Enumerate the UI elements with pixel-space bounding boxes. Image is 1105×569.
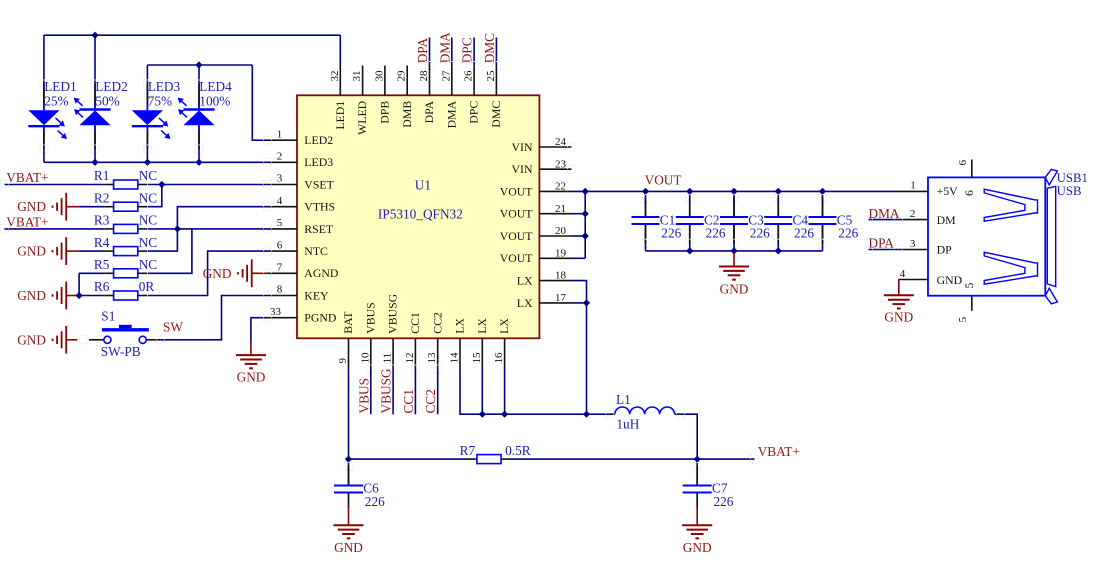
ground GND (S1 row) xyxy=(17,326,77,354)
svg-text:DMA: DMA xyxy=(437,32,452,63)
svg-text:LX: LX xyxy=(453,318,467,334)
svg-text:VIN: VIN xyxy=(512,162,533,176)
svg-text:10: 10 xyxy=(359,352,371,364)
U1 pin 24 (VIN) xyxy=(512,136,572,154)
svg-text:GND: GND xyxy=(720,282,749,297)
svg-text:SW: SW xyxy=(163,320,183,335)
ground GND (R6 row) xyxy=(17,282,77,310)
svg-text:LX: LX xyxy=(517,274,533,288)
svg-text:NC: NC xyxy=(139,190,158,205)
U1 pin 8 (KEY) xyxy=(268,284,330,303)
resistor R4 NC xyxy=(94,235,157,256)
U1 pin 5 (RSET) xyxy=(268,217,334,236)
junction LED2 top xyxy=(91,32,98,39)
svg-text:VTHS: VTHS xyxy=(304,200,335,214)
svg-text:VBAT+: VBAT+ xyxy=(758,444,800,459)
capacitor C5 226 xyxy=(809,191,859,251)
svg-text:CC2: CC2 xyxy=(423,389,438,413)
wire LX pin16 down xyxy=(504,369,506,414)
svg-text:26: 26 xyxy=(463,70,475,82)
junction cap bottom rail xyxy=(775,247,782,254)
svg-text:2: 2 xyxy=(277,151,283,163)
svg-text:USB: USB xyxy=(1057,184,1082,198)
wire R5 left xyxy=(79,272,104,274)
svg-text:DM: DM xyxy=(937,213,957,227)
U1 pin 26 (DPC) xyxy=(463,66,481,124)
svg-text:VBUS: VBUS xyxy=(363,302,377,333)
LED LED4 100% xyxy=(178,65,233,162)
junction cap bottom rail xyxy=(730,247,737,254)
ground GND (cap bank) xyxy=(733,251,735,267)
svg-text:1: 1 xyxy=(910,180,916,192)
resistor R7 0.5R xyxy=(460,443,531,464)
wire LX rail xyxy=(460,369,610,414)
svg-text:28: 28 xyxy=(418,70,430,82)
svg-text:5: 5 xyxy=(957,316,969,322)
svg-text:GND: GND xyxy=(683,540,712,555)
U1 pin 28 (DPA) xyxy=(418,66,436,124)
U1 pin 29 (DMB) xyxy=(396,66,414,128)
svg-text:GND: GND xyxy=(884,310,913,325)
junction R6/GND/R5 xyxy=(76,292,83,299)
capacitor C3 226 xyxy=(720,191,770,251)
U1 pin 9 (BAT) xyxy=(337,311,355,369)
junction VOUT pin22 xyxy=(582,188,589,195)
svg-text:CC2: CC2 xyxy=(430,312,444,334)
wire stub net CC2 (pin bottom) xyxy=(437,369,439,414)
svg-text:DPA: DPA xyxy=(415,38,430,64)
svg-text:GND: GND xyxy=(937,273,963,287)
wire top rail (LED1/LED2 to pin 32) xyxy=(44,34,340,36)
U1 pin 19 (VOUT) xyxy=(500,247,572,265)
USB1 pin 1 (+5V) xyxy=(897,190,928,192)
svg-text:BAT: BAT xyxy=(341,311,355,334)
svg-text:15: 15 xyxy=(471,352,483,364)
svg-text:1uH: 1uH xyxy=(616,417,639,432)
U1 pin 10 (VBUS) xyxy=(359,302,377,369)
junction VOUT rail C1 xyxy=(642,188,649,195)
U1 pin 22 (VOUT) xyxy=(500,181,572,199)
U1 pin 17 (LX) xyxy=(517,292,572,310)
svg-text:226: 226 xyxy=(794,226,814,241)
ground GND (below C7) xyxy=(696,493,698,509)
svg-text:R7: R7 xyxy=(460,443,476,458)
svg-text:3: 3 xyxy=(910,238,916,250)
svg-text:RSET: RSET xyxy=(304,222,334,236)
wire L1 to VBAT+ node xyxy=(680,414,698,459)
U1 pin 6 (NTC) xyxy=(268,239,329,258)
decorative pale connection markers xyxy=(264,136,272,144)
svg-text:GND: GND xyxy=(237,370,266,385)
svg-text:6: 6 xyxy=(962,190,976,196)
svg-text:GND: GND xyxy=(17,332,46,347)
resistor R5 NC xyxy=(94,257,157,278)
wire GND to R4 xyxy=(79,250,104,252)
svg-text:R5: R5 xyxy=(94,257,110,272)
svg-text:27: 27 xyxy=(440,70,452,82)
USB1 pin 5 (shield) xyxy=(971,296,973,311)
junction R1/R2 (pin 3 net) xyxy=(158,181,165,188)
wire stub net DPC (pin top) xyxy=(473,38,475,66)
svg-text:VOUT: VOUT xyxy=(500,251,534,265)
U1 pin 31 (WLED) xyxy=(351,66,369,135)
USB1 pin 6 (shield) xyxy=(971,160,973,178)
wire stub net CC1 (pin bottom) xyxy=(414,369,416,414)
svg-text:DMA: DMA xyxy=(444,100,458,128)
wire stub net VBUSG (pin bottom) xyxy=(392,369,394,414)
svg-text:VBAT+: VBAT+ xyxy=(6,214,48,229)
svg-text:CC1: CC1 xyxy=(401,389,416,413)
svg-text:VOUT: VOUT xyxy=(500,207,534,221)
svg-text:DMB: DMB xyxy=(400,101,414,128)
svg-text:SW-PB: SW-PB xyxy=(101,344,141,359)
U1 pin 18 (LX) xyxy=(517,270,572,288)
svg-text:LED1: LED1 xyxy=(333,101,347,130)
svg-text:8: 8 xyxy=(277,284,283,296)
svg-text:DMA: DMA xyxy=(869,206,900,221)
svg-text:226: 226 xyxy=(706,226,726,241)
wire R7 to VBAT+ node xyxy=(510,458,698,460)
junction LED4 bottom xyxy=(195,159,202,166)
U1 pin 25 (DMC) xyxy=(485,66,503,128)
junction LX pin17 xyxy=(583,299,590,306)
svg-text:LED4: LED4 xyxy=(199,79,232,94)
resistor R3 NC xyxy=(94,213,157,234)
junction VOUT rail C2 xyxy=(686,188,693,195)
wire second rail (LED3/LED4) xyxy=(147,64,252,66)
svg-text:NC: NC xyxy=(139,235,158,250)
svg-text:12: 12 xyxy=(404,353,416,364)
svg-text:DPC: DPC xyxy=(467,101,481,124)
svg-text:LED1: LED1 xyxy=(44,79,76,94)
svg-text:VBUSG: VBUSG xyxy=(379,368,394,413)
svg-text:VBUS: VBUS xyxy=(356,378,371,413)
ground GND (R4 row) xyxy=(17,237,79,265)
svg-text:5: 5 xyxy=(277,217,283,229)
svg-text:14: 14 xyxy=(449,352,461,364)
svg-text:DPA: DPA xyxy=(422,100,436,123)
svg-text:IP5310_QFN32: IP5310_QFN32 xyxy=(378,207,463,222)
svg-text:NTC: NTC xyxy=(304,244,328,258)
resistor R2 NC xyxy=(94,190,157,211)
wire R5 left drop to R6 row xyxy=(78,273,80,295)
U1 pin 12 (CC1) xyxy=(404,312,422,369)
svg-text:33: 33 xyxy=(270,306,282,318)
junction LED2 bottom xyxy=(91,159,98,166)
svg-text:VIN: VIN xyxy=(512,140,533,154)
junction BAT/R7/C6 xyxy=(345,456,352,463)
wire capacitor bottom rail xyxy=(646,250,823,252)
ground GND (R2 row) xyxy=(17,193,79,221)
svg-text:LX: LX xyxy=(517,296,533,310)
svg-text:6: 6 xyxy=(277,239,283,251)
U1 pin 7 (AGND) xyxy=(268,262,339,281)
wire LX pin15 down xyxy=(481,369,483,414)
svg-text:32: 32 xyxy=(329,71,341,82)
svg-text:29: 29 xyxy=(396,70,408,82)
svg-text:11: 11 xyxy=(382,353,394,364)
wire VOUT pins tie xyxy=(584,191,586,258)
ground GND (pin 33 PGND) xyxy=(250,343,252,356)
svg-text:3: 3 xyxy=(277,173,283,185)
ground GND (USB pin 4) xyxy=(898,280,900,296)
svg-text:100%: 100% xyxy=(199,93,230,108)
U1 pin 15 (LX) xyxy=(471,318,489,369)
svg-text:9: 9 xyxy=(337,358,349,364)
wire LED bottom rail to pin 2 xyxy=(44,161,268,163)
capacitor C7 226 xyxy=(683,459,734,509)
junction LED4 top xyxy=(195,61,202,68)
junction pin4/R3/R4 xyxy=(174,225,181,232)
svg-text:5: 5 xyxy=(962,283,976,289)
svg-text:GND: GND xyxy=(17,244,46,259)
svg-text:226: 226 xyxy=(661,226,681,241)
USB1 pin 3 (DP) xyxy=(898,249,928,251)
wire stub net VBUS (pin bottom) xyxy=(370,369,372,414)
U1 pin 32 (LED1) xyxy=(329,66,347,130)
svg-text:DMC: DMC xyxy=(482,33,497,63)
U1 pin 2 (LED3) xyxy=(268,151,334,170)
svg-text:USB1: USB1 xyxy=(1057,171,1088,185)
svg-text:50%: 50% xyxy=(95,93,119,108)
inductor L1 1uH xyxy=(610,392,680,432)
svg-text:VSET: VSET xyxy=(304,177,334,191)
svg-text:VBAT+: VBAT+ xyxy=(6,170,48,185)
svg-text:R2: R2 xyxy=(94,190,110,205)
svg-text:24: 24 xyxy=(555,136,567,148)
junction LX pin15 xyxy=(479,411,486,418)
junction L1/R7/C7 xyxy=(694,456,701,463)
junction VOUT rail C4 xyxy=(775,188,782,195)
svg-text:L1: L1 xyxy=(616,392,631,407)
wire VBAT+ stub xyxy=(697,458,754,460)
svg-text:R4: R4 xyxy=(94,235,110,250)
svg-text:+5V: +5V xyxy=(937,184,959,198)
wire junction to R6 xyxy=(79,295,104,297)
svg-text:PGND: PGND xyxy=(304,311,337,325)
capacitor C2 226 xyxy=(676,191,726,251)
junction VOUT pin20 xyxy=(582,232,589,239)
LED LED1 25% xyxy=(28,35,76,162)
svg-text:0.5R: 0.5R xyxy=(505,443,531,458)
wire LX pin18 down xyxy=(572,281,587,415)
svg-text:20: 20 xyxy=(555,225,567,237)
U1 pin 3 (VSET) xyxy=(268,173,335,192)
svg-text:VOUT: VOUT xyxy=(645,173,682,188)
wire VBAT+ to R1 xyxy=(5,184,105,186)
svg-text:LX: LX xyxy=(475,318,489,334)
svg-text:AGND: AGND xyxy=(304,266,339,280)
svg-text:GND: GND xyxy=(17,288,46,303)
U1 pin 33 (PGND) xyxy=(268,306,337,325)
svg-text:VOUT: VOUT xyxy=(500,184,534,198)
junction LED3 bottom xyxy=(144,159,151,166)
U1 pin 23 (VIN) xyxy=(512,158,572,176)
capacitor C1 226 xyxy=(632,191,682,251)
svg-text:NC: NC xyxy=(139,168,158,183)
junction VOUT rail C5 xyxy=(819,188,826,195)
capacitor C4 226 xyxy=(764,191,814,251)
wire R1 out to pin 3 xyxy=(148,184,268,186)
wire VBAT+ to R3 xyxy=(5,228,105,230)
wire BAT pin9 down xyxy=(348,369,350,459)
svg-text:17: 17 xyxy=(555,292,567,304)
svg-text:23: 23 xyxy=(555,158,567,170)
svg-text:6: 6 xyxy=(957,159,969,165)
svg-text:0R: 0R xyxy=(139,279,155,294)
svg-text:NC: NC xyxy=(139,213,158,228)
U1 pin 16 (LX) xyxy=(493,318,511,369)
svg-text:25%: 25% xyxy=(44,93,68,108)
svg-text:DP: DP xyxy=(937,243,953,257)
svg-text:CC1: CC1 xyxy=(408,312,422,334)
svg-text:75%: 75% xyxy=(148,93,172,108)
svg-text:LED3: LED3 xyxy=(148,79,181,94)
svg-text:2: 2 xyxy=(910,208,916,220)
wire rail2 to pin 1 xyxy=(252,65,267,140)
U1 pin 1 (LED2) xyxy=(268,128,334,147)
svg-text:4: 4 xyxy=(277,195,283,207)
svg-text:31: 31 xyxy=(351,71,363,82)
svg-text:16: 16 xyxy=(493,352,505,363)
ground GND (below C6) xyxy=(348,493,350,509)
U1 pin 14 (LX) xyxy=(449,318,467,369)
wire pin 4 to R3/R4 junction xyxy=(148,207,268,251)
wire R2 out up to pin3 net xyxy=(148,185,162,207)
wire R5 out up to pin5 net xyxy=(148,229,192,273)
svg-text:R1: R1 xyxy=(94,168,110,183)
wire R6 out to pin 6 xyxy=(148,251,268,295)
svg-text:226: 226 xyxy=(750,226,770,241)
svg-text:WLED: WLED xyxy=(355,100,369,135)
ground GND (pin 7 AGND) xyxy=(203,259,268,287)
LED LED3 75% xyxy=(132,65,181,162)
IC U1 IP5310_QFN32 body xyxy=(297,95,539,338)
wire pin 32 drop xyxy=(339,35,341,65)
LED LED2 50% xyxy=(74,35,128,162)
wire pin 33 to GND xyxy=(251,318,268,343)
svg-text:DPB: DPB xyxy=(378,101,392,124)
svg-text:U1: U1 xyxy=(415,178,431,193)
wire DPA stub xyxy=(869,249,899,251)
wire DMA stub xyxy=(869,219,899,221)
junction VOUT rail C3 xyxy=(730,188,737,195)
wire VOUT rail xyxy=(572,190,898,192)
svg-text:22: 22 xyxy=(555,181,566,193)
wire LX pin17 xyxy=(572,302,587,304)
USB connector USB1 xyxy=(897,159,1087,322)
svg-text:R6: R6 xyxy=(94,279,110,294)
capacitor C6 226 xyxy=(334,459,385,509)
wire BAT to R7 xyxy=(349,458,468,460)
svg-text:DMC: DMC xyxy=(489,101,503,128)
svg-text:18: 18 xyxy=(555,270,567,282)
wire stub net DMA (pin top) xyxy=(451,38,453,66)
U1 pin 27 (DMA) xyxy=(440,66,458,129)
wire GND to R2 xyxy=(79,206,104,208)
svg-text:R3: R3 xyxy=(94,213,110,228)
svg-text:GND: GND xyxy=(334,540,363,555)
switch S1 SW-PB xyxy=(89,308,160,359)
resistor R6 0R xyxy=(94,279,154,300)
svg-text:GND: GND xyxy=(17,199,46,214)
svg-text:1: 1 xyxy=(277,128,283,140)
svg-text:25: 25 xyxy=(485,70,497,82)
svg-text:LX: LX xyxy=(497,318,511,334)
junction cap bottom rail xyxy=(686,247,693,254)
wire SW to pin 8 KEY xyxy=(160,296,267,340)
U1 pin 13 (CC2) xyxy=(426,312,444,369)
svg-text:7: 7 xyxy=(277,262,283,274)
wire R3 out to pin 5 xyxy=(148,228,268,230)
svg-text:LED2: LED2 xyxy=(304,133,333,147)
svg-text:S1: S1 xyxy=(101,308,115,323)
U1 pin 20 (VOUT) xyxy=(500,225,572,243)
junction LX pin16 xyxy=(501,411,508,418)
junction VOUT pin21 xyxy=(582,210,589,217)
svg-text:LED2: LED2 xyxy=(95,79,128,94)
svg-text:VBUSG: VBUSG xyxy=(386,293,400,333)
svg-text:226: 226 xyxy=(714,494,734,509)
wire stub net DMC (pin top) xyxy=(495,38,497,66)
svg-text:GND: GND xyxy=(203,266,232,281)
svg-text:4: 4 xyxy=(900,268,906,280)
U1 pin 11 (VBUSG) xyxy=(382,293,400,369)
svg-text:226: 226 xyxy=(838,226,858,241)
svg-text:226: 226 xyxy=(365,494,385,509)
U1 pin 21 (VOUT) xyxy=(500,203,572,221)
USB1 pin 2 (DM) xyxy=(898,219,928,221)
svg-text:VOUT: VOUT xyxy=(500,229,534,243)
wire stub net DPA (pin top) xyxy=(429,38,431,66)
junction LX rail xyxy=(583,411,590,418)
U1 pin 4 (VTHS) xyxy=(268,195,336,214)
svg-text:DPC: DPC xyxy=(460,37,475,63)
svg-text:13: 13 xyxy=(426,352,438,364)
U1 pin 30 (DPB) xyxy=(373,66,391,124)
svg-text:KEY: KEY xyxy=(304,288,329,302)
USB1 pin 4 (GND) xyxy=(898,279,928,281)
svg-text:NC: NC xyxy=(139,257,158,272)
svg-text:LED3: LED3 xyxy=(304,155,333,169)
svg-text:19: 19 xyxy=(555,247,567,259)
svg-text:21: 21 xyxy=(555,203,566,215)
resistor R1 NC xyxy=(94,168,157,189)
svg-text:30: 30 xyxy=(373,70,385,82)
